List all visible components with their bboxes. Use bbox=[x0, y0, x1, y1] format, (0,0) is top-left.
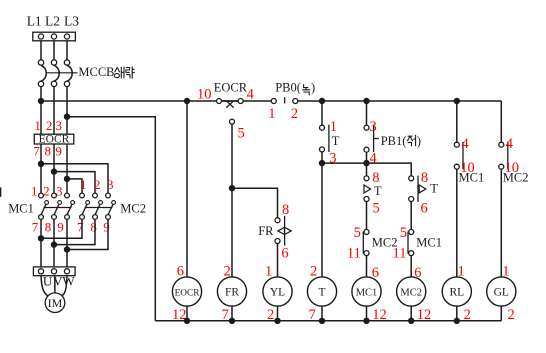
coil FR bbox=[217, 277, 246, 306]
svg-text:2: 2 bbox=[43, 183, 50, 198]
wire bbox=[322, 163, 411, 176]
svg-text:5: 5 bbox=[238, 126, 245, 142]
wire bbox=[232, 188, 278, 218]
svg-text:MC1: MC1 bbox=[416, 236, 442, 250]
svg-text:4: 4 bbox=[462, 136, 470, 152]
svg-text:EOCR: EOCR bbox=[214, 81, 248, 95]
wire bbox=[277, 244, 279, 277]
svg-text:1: 1 bbox=[265, 264, 272, 280]
svg-text:1: 1 bbox=[31, 183, 38, 198]
svg-text:): ) bbox=[417, 134, 421, 148]
breaker MCCB pole 2 bbox=[51, 60, 59, 87]
svg-text:FR: FR bbox=[225, 287, 239, 299]
wire (control return, left rail) bbox=[67, 117, 155, 321]
wire bbox=[41, 144, 67, 193]
svg-text:8: 8 bbox=[45, 220, 52, 235]
coil T bbox=[307, 277, 336, 306]
svg-text:1: 1 bbox=[268, 106, 275, 122]
svg-text:2: 2 bbox=[94, 177, 101, 192]
svg-text:2: 2 bbox=[508, 307, 515, 323]
wire bbox=[231, 306, 233, 321]
contactor MC1 main pole 2 bbox=[52, 193, 62, 219]
junction on L3 bbox=[64, 114, 70, 120]
svg-text:8: 8 bbox=[421, 170, 428, 186]
svg-text:): ) bbox=[311, 81, 315, 95]
aux contact MC1 4-10 (NO) bbox=[454, 101, 463, 277]
svg-text:MC1: MC1 bbox=[8, 202, 34, 216]
timed contact T 8-6 (NC) bbox=[409, 176, 426, 230]
svg-text:3: 3 bbox=[107, 177, 114, 192]
svg-text:6: 6 bbox=[177, 264, 184, 280]
svg-text:T: T bbox=[332, 134, 340, 148]
contactor MC2 main pole 1 bbox=[80, 193, 90, 219]
svg-text:7: 7 bbox=[32, 220, 39, 235]
junction node bbox=[229, 185, 235, 191]
junction node bbox=[363, 318, 369, 324]
contactor MC2 main pole 2 bbox=[93, 193, 103, 219]
svg-text:6: 6 bbox=[281, 246, 288, 262]
svg-text:5: 5 bbox=[373, 200, 380, 216]
svg-text:11: 11 bbox=[347, 246, 361, 262]
coil GL bbox=[487, 277, 516, 306]
wire bbox=[321, 163, 323, 277]
svg-text:9: 9 bbox=[57, 220, 64, 235]
svg-text:8: 8 bbox=[45, 143, 52, 158]
wire (bottom rail) bbox=[155, 320, 501, 322]
contactor MC1 main pole 3 bbox=[65, 193, 75, 219]
svg-text:T: T bbox=[318, 287, 325, 299]
wire bbox=[186, 306, 188, 321]
wire bbox=[40, 219, 42, 267]
svg-text:11: 11 bbox=[393, 246, 407, 262]
pin labels MC1 1 2 3 bbox=[31, 183, 63, 198]
coil MC2 bbox=[397, 277, 426, 306]
svg-text:5: 5 bbox=[400, 225, 407, 241]
svg-text:RL: RL bbox=[449, 287, 464, 299]
wire bbox=[54, 219, 95, 244]
pin labels MC2 1 2 3 bbox=[80, 177, 114, 192]
pushbutton PB1 (NC) bbox=[364, 101, 379, 163]
wire bbox=[41, 276, 48, 297]
flicker contact FR 8-6 bbox=[275, 216, 291, 246]
wire bbox=[410, 306, 412, 321]
wire (top control bus) bbox=[41, 101, 501, 142]
svg-text:1: 1 bbox=[458, 264, 465, 280]
junction node bbox=[408, 318, 414, 324]
terminal 5 bbox=[230, 119, 235, 124]
label PB0(녹) bbox=[275, 81, 315, 96]
wire bbox=[54, 276, 56, 293]
wire bbox=[41, 219, 82, 238]
wire bbox=[41, 41, 67, 60]
svg-text:YL: YL bbox=[270, 287, 285, 299]
contact T 1-3 (NO) bbox=[320, 101, 329, 163]
svg-text:PB1(: PB1( bbox=[381, 134, 407, 148]
svg-text:8: 8 bbox=[282, 202, 289, 218]
svg-text:L3: L3 bbox=[64, 14, 79, 29]
wire bbox=[53, 219, 55, 267]
MC1 link line bbox=[44, 207, 72, 209]
wire bbox=[321, 306, 323, 321]
svg-text:10: 10 bbox=[197, 86, 212, 102]
svg-text:2: 2 bbox=[224, 264, 231, 280]
junction node bbox=[363, 98, 369, 104]
svg-text:9: 9 bbox=[55, 143, 62, 158]
coil YL bbox=[263, 277, 292, 306]
wire bbox=[277, 306, 279, 321]
svg-text:1: 1 bbox=[330, 119, 337, 135]
svg-text:7: 7 bbox=[77, 220, 84, 235]
svg-text:1: 1 bbox=[34, 118, 41, 133]
wire bbox=[67, 179, 82, 193]
svg-text:W: W bbox=[62, 273, 75, 288]
wire bbox=[186, 101, 188, 277]
pushbutton PB0 (NO) bbox=[271, 97, 298, 103]
junction node bbox=[454, 98, 460, 104]
label MCCB생략 bbox=[78, 65, 134, 79]
svg-text:4: 4 bbox=[247, 86, 255, 102]
svg-text:5: 5 bbox=[354, 225, 361, 241]
svg-text:4: 4 bbox=[370, 150, 378, 166]
timed contact T 8-5 (NO) bbox=[364, 163, 371, 230]
motor IM bbox=[45, 293, 65, 313]
junction node bbox=[229, 318, 235, 324]
svg-text:EOCR: EOCR bbox=[39, 134, 70, 146]
terminal block TB1 bbox=[33, 32, 76, 41]
svg-text:MC2: MC2 bbox=[400, 288, 422, 299]
svg-text:MC1: MC1 bbox=[459, 171, 485, 185]
wire bbox=[231, 124, 233, 277]
svg-text:IM: IM bbox=[48, 296, 63, 310]
svg-text:4: 4 bbox=[506, 136, 514, 152]
interlock contact MC2 5-11 (NC) bbox=[363, 230, 369, 277]
coil RL bbox=[442, 277, 471, 306]
contactor MC1 main pole 1 bbox=[39, 193, 49, 219]
junction node bbox=[363, 160, 369, 166]
cropped label at left edge bbox=[0, 187, 1, 196]
svg-text:MC1: MC1 bbox=[356, 288, 378, 299]
svg-text:1: 1 bbox=[502, 264, 509, 280]
junction node bbox=[38, 235, 44, 241]
wire bbox=[500, 306, 502, 321]
svg-text:3: 3 bbox=[329, 150, 336, 166]
junction on L1 bbox=[38, 98, 44, 104]
junction node bbox=[319, 318, 325, 324]
svg-text:3: 3 bbox=[370, 119, 377, 135]
wire bbox=[41, 164, 108, 193]
svg-text:T: T bbox=[430, 182, 438, 196]
junction node (L1 tap) bbox=[38, 161, 44, 167]
junction node bbox=[454, 318, 460, 324]
svg-text:L1: L1 bbox=[27, 14, 42, 29]
coil MC1 bbox=[352, 277, 381, 306]
junction node bbox=[274, 318, 280, 324]
svg-text:1: 1 bbox=[80, 177, 87, 192]
svg-text:3: 3 bbox=[56, 118, 63, 133]
pin labels MC1 7 8 9 bbox=[32, 220, 64, 235]
junction node (L3 tap) bbox=[64, 176, 70, 182]
wire bbox=[67, 219, 108, 249]
svg-text:2: 2 bbox=[310, 264, 317, 280]
svg-text:MCCB: MCCB bbox=[78, 65, 114, 79]
interlock contact MC1 5-11 (NC) bbox=[408, 230, 414, 277]
terminal block TB2 bbox=[33, 267, 75, 276]
label PB1(적) bbox=[381, 134, 421, 148]
MCCB link line bbox=[47, 72, 78, 74]
svg-text:U: U bbox=[43, 273, 53, 288]
svg-text:2: 2 bbox=[291, 106, 298, 122]
junction node bbox=[51, 241, 57, 247]
svg-text:MC2: MC2 bbox=[503, 171, 529, 185]
wire bbox=[54, 172, 95, 194]
junction node bbox=[319, 160, 325, 166]
svg-text:PB0(: PB0( bbox=[275, 81, 301, 95]
svg-text:FR: FR bbox=[258, 224, 274, 238]
svg-text:9: 9 bbox=[103, 220, 110, 235]
wire bbox=[62, 276, 68, 297]
svg-text:8: 8 bbox=[90, 220, 97, 235]
junction node (L2 tap) bbox=[51, 168, 57, 174]
svg-text:EOCR: EOCR bbox=[175, 289, 201, 299]
svg-text:6: 6 bbox=[421, 200, 428, 216]
wire bbox=[41, 87, 67, 135]
junction node bbox=[184, 98, 190, 104]
relay EOCR overload element bbox=[34, 134, 74, 146]
svg-text:T: T bbox=[374, 184, 382, 198]
svg-text:7: 7 bbox=[33, 143, 40, 158]
aux contact MC2 4-10 (NO) bbox=[499, 142, 508, 277]
breaker MCCB pole 3 bbox=[64, 60, 72, 87]
pin labels MC2 7 8 9 bbox=[77, 220, 110, 235]
breaker MCCB pole 1 bbox=[38, 60, 46, 87]
svg-text:L2: L2 bbox=[45, 14, 60, 29]
junction node bbox=[184, 318, 190, 324]
coil EOCR bbox=[172, 277, 201, 306]
junction node bbox=[319, 98, 325, 104]
svg-text:MC2: MC2 bbox=[120, 202, 146, 216]
contactor MC2 main pole 3 bbox=[106, 193, 116, 219]
svg-text:GL: GL bbox=[494, 287, 509, 299]
contact EOCR 10-4 (trip) bbox=[217, 99, 244, 108]
wire bbox=[66, 219, 68, 267]
wire bbox=[456, 306, 458, 321]
svg-text:2: 2 bbox=[46, 118, 53, 133]
junction node bbox=[64, 246, 70, 252]
wire bbox=[366, 306, 368, 321]
MC2 link line bbox=[85, 207, 113, 209]
